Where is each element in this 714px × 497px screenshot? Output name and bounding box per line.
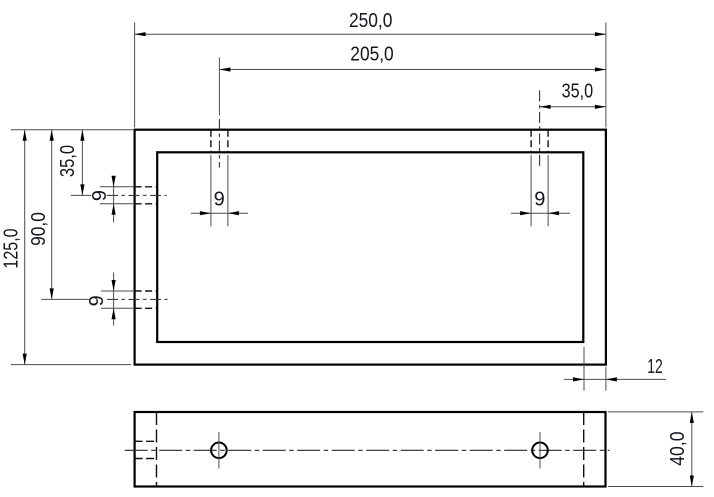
front view main centerline — [125, 449, 610, 451]
hole left — [211, 443, 227, 459]
svg-text:12: 12 — [647, 356, 663, 378]
plan view inner rectangle — [157, 152, 583, 342]
svg-text:125,0: 125,0 — [1, 228, 23, 268]
svg-text:90,0: 90,0 — [28, 212, 50, 246]
dimension 205,0 — [219, 57, 606, 115]
dimension 250,0 — [135, 23, 606, 128]
dimension 40,0 — [608, 412, 703, 487]
dimension 9 top-left slot — [191, 155, 248, 226]
left slot 1 hidden edges — [135, 187, 158, 204]
svg-text:9: 9 — [534, 189, 545, 211]
front view hidden wall line left — [156, 412, 158, 487]
svg-text:9: 9 — [214, 189, 225, 211]
svg-text:35,0: 35,0 — [57, 145, 79, 177]
hole right — [532, 443, 548, 459]
svg-text:205,0: 205,0 — [350, 44, 393, 66]
top-left slot centerline — [218, 119, 220, 168]
top-right slot centerline — [539, 90, 541, 167]
plan view outer rectangle — [135, 130, 606, 365]
dimension 12 wall thickness — [564, 347, 666, 391]
dimension 90,0 — [51, 130, 53, 300]
dimension 125,0 — [24, 130, 26, 365]
top-left slot hidden edges — [211, 130, 228, 153]
svg-text:35,0: 35,0 — [562, 80, 594, 102]
top-right slot hidden edges — [531, 130, 548, 153]
left extension lines top and bottom — [11, 130, 133, 365]
dimension 9 left slot 1 — [100, 176, 134, 223]
left slot 2 centerline extension — [41, 298, 90, 300]
svg-text:250,0: 250,0 — [349, 10, 392, 32]
dimension 9 top-right slot — [511, 155, 570, 226]
left slot 2 centerline — [107, 298, 168, 300]
front view hidden wall line right — [583, 412, 585, 487]
front view hidden slot box — [135, 441, 157, 458]
svg-text:9: 9 — [86, 295, 108, 306]
dimension 35,0 top right — [540, 106, 606, 108]
left slot 2 hidden edges — [135, 291, 158, 308]
front view outline — [135, 412, 606, 487]
dimension 35,0 left — [81, 130, 83, 196]
left slot 1 centerline — [107, 194, 167, 196]
svg-text:9: 9 — [89, 190, 111, 201]
left slot 1 centerline extension — [71, 194, 91, 196]
dimension 9 left slot 2 — [101, 273, 134, 326]
svg-text:40,0: 40,0 — [667, 431, 689, 465]
